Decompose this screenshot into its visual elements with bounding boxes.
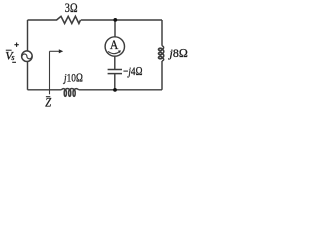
wire middle branch mid [114, 56, 116, 69]
capacitor -j4ohm plate top [108, 69, 122, 71]
capacitor -j4ohm plate bottom [108, 73, 122, 75]
ammeter circle [105, 37, 124, 56]
wire middle branch upper [114, 20, 116, 37]
ammeter arrow head [118, 50, 121, 53]
label Z macron [46, 96, 50, 98]
impedance arrow Z horizontal [50, 50, 60, 52]
label Vs macron [6, 49, 12, 51]
wire top-right [81, 19, 162, 21]
svg-text:A: A [110, 37, 119, 52]
wire left branch upper [27, 20, 29, 51]
label plus polarity [14, 44, 18, 46]
svg-text:j10Ω: j10Ω [62, 70, 83, 84]
wire middle branch lower [114, 74, 116, 90]
inductor j10ohm coil [62, 89, 66, 90]
junction dot bottom [113, 88, 117, 92]
voltage source Vs circle [22, 51, 33, 62]
svg-text:s: s [11, 53, 14, 62]
voltage source sine [22, 54, 32, 59]
impedance arrow head [59, 49, 63, 53]
wire top-left [28, 19, 58, 21]
svg-text:−j4Ω: −j4Ω [123, 64, 143, 78]
impedance arrow Z vertical [49, 51, 51, 94]
wire right branch lower [161, 61, 163, 90]
wire bottom-left [28, 89, 62, 91]
svg-text:j8Ω: j8Ω [168, 46, 188, 60]
junction dot top [113, 18, 117, 22]
resistor 3ohm [57, 16, 81, 23]
wire bottom-right [79, 89, 162, 91]
label minus polarity [12, 61, 16, 63]
ammeter arrow [108, 51, 119, 53]
wire left branch lower [27, 61, 29, 89]
wire right branch upper [161, 20, 163, 46]
svg-text:3Ω: 3Ω [65, 0, 78, 15]
inductor j8ohm coil [162, 46, 164, 49]
